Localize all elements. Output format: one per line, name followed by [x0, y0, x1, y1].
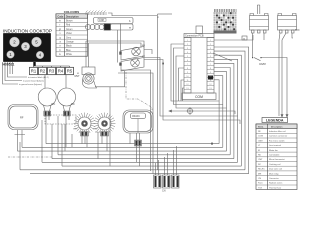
- svg-text:Black: Black: [66, 46, 72, 48]
- svg-text:Radiant zones: Radiant zones: [269, 182, 282, 185]
- svg-text:Motor fan: Motor fan: [269, 149, 279, 152]
- svg-text:to ground screw (b/green): to ground screw (b/green): [19, 83, 42, 86]
- svg-text:CN: CN: [162, 190, 166, 193]
- svg-text:RF: RF: [20, 116, 24, 120]
- svg-text:COM: COM: [258, 136, 263, 138]
- svg-text:Brown: Brown: [66, 20, 73, 23]
- svg-text:MR: MR: [258, 173, 262, 175]
- svg-text:R4: R4: [58, 69, 64, 74]
- svg-text:Red: Red: [66, 25, 71, 27]
- svg-text:Line terminal: Line terminal: [269, 144, 281, 147]
- svg-text:r: r: [60, 24, 61, 27]
- svg-text:CN8: CN8: [99, 19, 104, 22]
- svg-text:TXX: TXX: [295, 30, 300, 32]
- svg-text:w: w: [129, 26, 131, 29]
- svg-text:COM: COM: [195, 95, 203, 99]
- svg-text:Coil double: Coil double: [269, 155, 280, 157]
- svg-text:INDUCTION COOKTOP: INDUCTION COOKTOP: [3, 28, 52, 33]
- svg-text:n: n: [158, 16, 160, 19]
- svg-text:Thermal fuse: Thermal fuse: [269, 186, 282, 189]
- svg-text:Connector: Connector: [269, 177, 279, 180]
- svg-text:Common connector: Common connector: [269, 135, 287, 138]
- svg-text:LT: LT: [258, 145, 261, 147]
- svg-text:to power board (b,A,L1): to power board (b,A,L1): [23, 80, 44, 83]
- svg-text:Grey: Grey: [66, 36, 72, 39]
- svg-text:Green: Green: [66, 28, 73, 31]
- svg-text:R1: R1: [31, 69, 37, 74]
- svg-text:Blue: Blue: [66, 50, 71, 52]
- svg-text:CMV: CMV: [258, 140, 263, 142]
- svg-text:Fan micro switch: Fan micro switch: [269, 139, 285, 142]
- svg-text:CMT: CMT: [258, 159, 263, 161]
- svg-text:CMV: CMV: [259, 62, 266, 66]
- svg-text:RC: RC: [71, 102, 75, 106]
- svg-text:M1: M1: [142, 45, 146, 47]
- svg-text:Code: Code: [58, 16, 64, 18]
- svg-text:RD-RC: RD-RC: [258, 169, 265, 171]
- svg-text:TXX: TXX: [258, 187, 263, 189]
- svg-text:Orange: Orange: [66, 41, 74, 44]
- svg-text:White: White: [66, 53, 73, 56]
- svg-text:Description: Description: [271, 126, 283, 129]
- svg-text:Dual zone coil: Dual zone coil: [269, 169, 283, 171]
- svg-text:Main relay: Main relay: [269, 172, 280, 175]
- svg-text:gr: gr: [59, 28, 61, 31]
- svg-text:COLOURS: COLOURS: [64, 10, 79, 14]
- svg-text:R5: R5: [67, 69, 73, 74]
- svg-text:R3: R3: [49, 69, 55, 74]
- svg-text:RD: RD: [258, 155, 262, 157]
- svg-text:R1-5: R1-5: [258, 183, 263, 185]
- svg-text:Micro thermostat: Micro thermostat: [269, 158, 285, 161]
- svg-text:CN: CN: [258, 178, 262, 180]
- svg-text:RF: RF: [258, 131, 262, 133]
- svg-text:to terminal block (A,L2): to terminal block (A,L2): [28, 76, 49, 79]
- svg-text:M: M: [258, 150, 260, 152]
- svg-text:R2: R2: [40, 69, 46, 74]
- svg-text:m: m: [59, 21, 61, 23]
- svg-text:LEGENDA: LEGENDA: [266, 119, 284, 123]
- svg-text:b: b: [129, 19, 131, 23]
- svg-text:RD-RC: RD-RC: [132, 115, 140, 118]
- svg-text:MVT: MVT: [75, 75, 81, 78]
- svg-text:H06521: H06521: [3, 63, 15, 67]
- svg-text:Induction filter coil: Induction filter coil: [269, 130, 286, 133]
- svg-text:Violet: Violet: [66, 32, 72, 35]
- svg-text:Description: Description: [66, 15, 79, 18]
- svg-text:Cooking coil: Cooking coil: [269, 164, 281, 166]
- svg-text:RC: RC: [258, 164, 262, 166]
- svg-text:RC: RC: [52, 102, 56, 106]
- svg-text:Simb.: Simb.: [258, 127, 264, 129]
- svg-text:w: w: [59, 54, 61, 56]
